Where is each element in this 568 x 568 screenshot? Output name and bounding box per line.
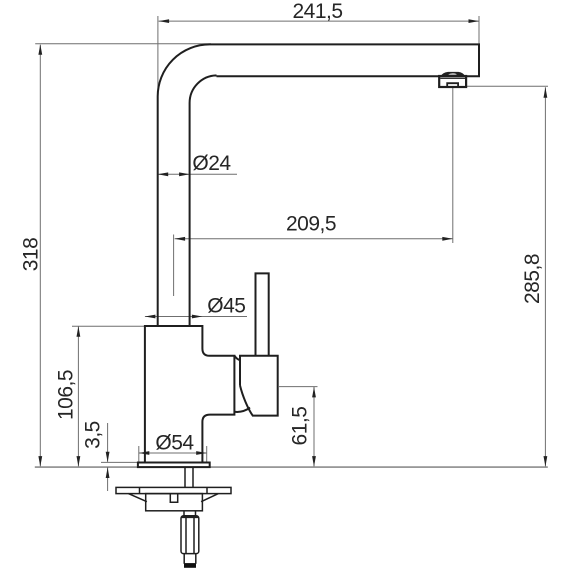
svg-text:3,5: 3,5 [82,421,105,449]
svg-text:Ø24: Ø24 [192,152,231,175]
svg-text:Ø45: Ø45 [207,295,245,318]
svg-text:209,5: 209,5 [286,212,336,235]
svg-text:61,5: 61,5 [289,407,312,446]
svg-text:285,8: 285,8 [521,254,544,304]
svg-text:Ø54: Ø54 [155,432,194,455]
svg-text:106,5: 106,5 [55,370,78,420]
svg-text:241,5: 241,5 [292,0,342,23]
svg-text:318: 318 [20,238,43,272]
